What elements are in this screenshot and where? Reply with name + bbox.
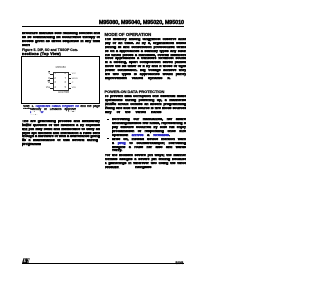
figure box frame bbox=[21, 56, 100, 103]
pin 8 stub bbox=[69, 73, 72, 76]
pin 3 stub bbox=[50, 82, 53, 85]
pin 6 stub bbox=[69, 82, 72, 85]
right col paragraph 1 bbox=[105, 38, 187, 42]
chip title M95080 bbox=[53, 67, 69, 70]
bullet 2 bbox=[112, 138, 186, 142]
ST logo bbox=[22, 258, 30, 264]
pin 2 stub bbox=[50, 77, 53, 80]
note line 3 bbox=[30, 111, 44, 115]
header part numbers bbox=[95, 21, 184, 26]
left col paragraph 1 bbox=[22, 32, 100, 36]
bullet 1 dash bbox=[107, 118, 109, 121]
pin numbers right bbox=[63, 73, 66, 76]
note line 1 bbox=[23, 105, 101, 109]
header rule bbox=[22, 26, 184, 27]
pin 1 stub bbox=[50, 73, 53, 76]
page number 5/35 bbox=[163, 260, 183, 265]
pin numbers left bbox=[54, 73, 55, 76]
note line 2 bbox=[30, 108, 77, 112]
right col paragraph 3 bbox=[105, 154, 187, 158]
pin 7 stub bbox=[69, 77, 72, 80]
footer rule bbox=[22, 263, 184, 265]
left col paragraph 2 bbox=[22, 120, 100, 124]
chip body U1 bbox=[53, 72, 69, 91]
figure 5 caption bbox=[22, 49, 78, 52]
bullet 1 bbox=[112, 118, 186, 122]
right pin labels bbox=[72, 73, 76, 76]
left pin labels bbox=[46, 73, 50, 76]
right col heading 1 bbox=[105, 32, 152, 37]
bullet 2 dash bbox=[107, 137, 109, 140]
figure ref label bbox=[56, 92, 71, 95]
pin 5 stub bbox=[69, 87, 72, 90]
right col heading 2 bbox=[105, 89, 165, 94]
pin 4 stub bbox=[50, 87, 53, 90]
right col paragraph 2 bbox=[105, 95, 187, 99]
